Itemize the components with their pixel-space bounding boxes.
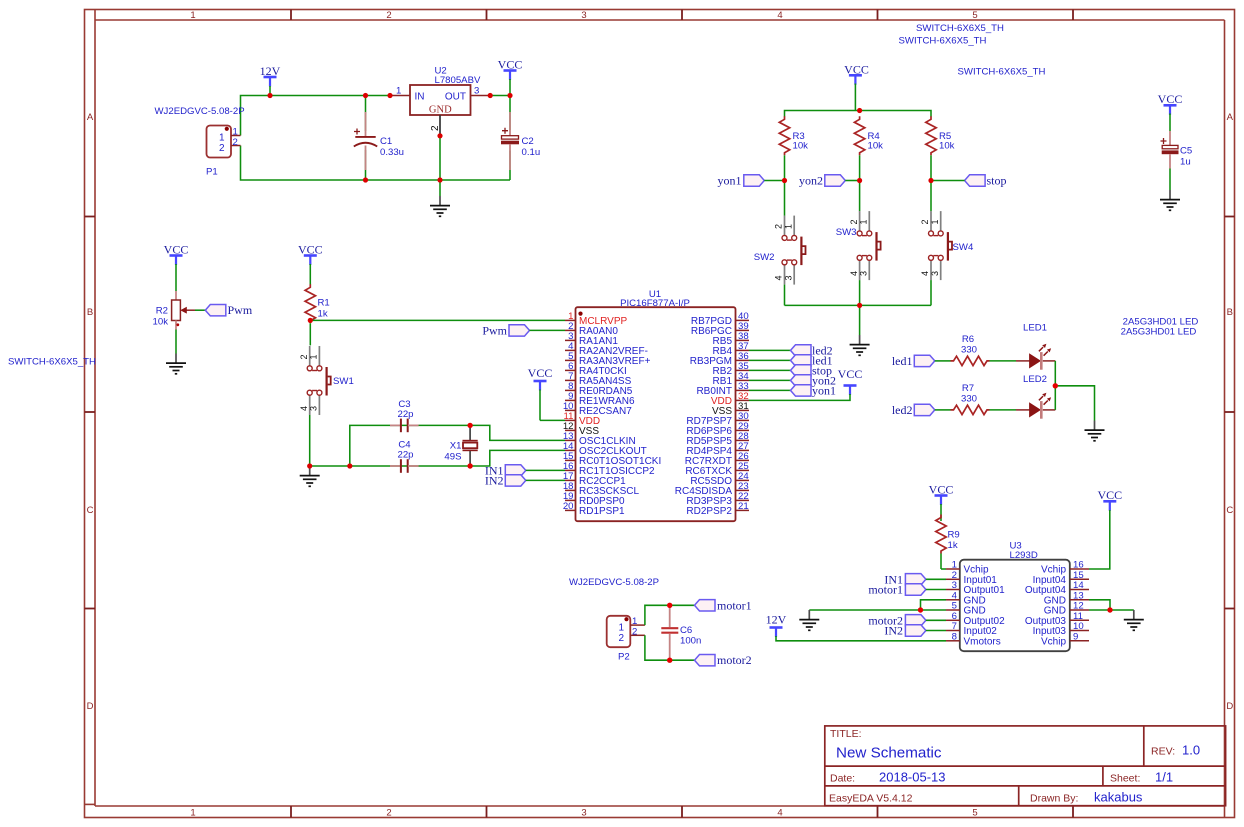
junction P2 bottom	[667, 658, 672, 663]
svg-text:Sheet:: Sheet:	[1110, 773, 1140, 785]
svg-text:2: 2	[774, 224, 784, 229]
junction X1 top	[467, 423, 472, 428]
netport stop (RB2)	[749, 363, 832, 377]
svg-text:1: 1	[618, 623, 624, 634]
junction R1 bottom	[308, 318, 313, 323]
junction VCC corner	[507, 93, 512, 98]
svg-text:2: 2	[299, 354, 309, 359]
svg-text:3: 3	[581, 10, 586, 21]
svg-text:1: 1	[859, 219, 869, 224]
ground (C5)	[1160, 190, 1180, 210]
junction 12V rail	[267, 93, 272, 98]
junction X1 bottom	[467, 463, 472, 468]
border row letters	[87, 112, 1234, 712]
svg-text:2: 2	[920, 219, 930, 224]
svg-text:10k: 10k	[153, 317, 169, 328]
svg-text:yon1: yon1	[718, 174, 742, 188]
svg-text:VCC: VCC	[1158, 92, 1183, 106]
svg-text:L293D: L293D	[1010, 550, 1038, 561]
junction stop node	[928, 178, 933, 183]
netport yon2 (RB1)	[749, 373, 836, 387]
title block	[825, 726, 1226, 806]
sheet border inner frame	[95, 19, 1225, 21]
svg-text:22p: 22p	[397, 409, 413, 420]
power flag VCC (U1 VDD pin32)	[749, 367, 862, 400]
svg-text:4: 4	[920, 271, 930, 276]
ground (switches)	[850, 335, 870, 355]
svg-text:kakabus: kakabus	[1094, 790, 1143, 805]
svg-text:2: 2	[386, 808, 391, 819]
wire U3 pin12 gnd to ground	[1089, 609, 1134, 611]
power flag VCC (R1)	[298, 242, 323, 284]
wire osc top to pin13	[470, 425, 565, 440]
svg-text:LED1: LED1	[1023, 323, 1047, 334]
svg-text:1: 1	[783, 224, 793, 229]
svg-text:1.0: 1.0	[1182, 743, 1200, 758]
wire pullup top rail	[785, 111, 932, 117]
netport stop	[931, 174, 1007, 188]
power flag VCC (switch pullups)	[844, 62, 869, 110]
power flag VCC (U1 VDD pin11)	[528, 366, 553, 420]
svg-text:D: D	[1226, 701, 1233, 712]
svg-text:motor2: motor2	[717, 653, 752, 667]
netport IN2 (U3)	[884, 624, 946, 638]
svg-text:0.1u: 0.1u	[522, 147, 541, 158]
svg-text:IN2: IN2	[485, 473, 504, 487]
wire rail to gnd	[859, 305, 861, 335]
svg-text:2: 2	[618, 633, 624, 644]
wire gnd stem	[439, 180, 441, 196]
svg-text:VCC: VCC	[528, 366, 553, 380]
svg-text:0.33u: 0.33u	[380, 147, 404, 158]
svg-text:SWITCH-6X6X5_TH: SWITCH-6X6X5_TH	[899, 36, 987, 47]
svg-text:2: 2	[632, 626, 637, 637]
column tick marks top	[291, 10, 1073, 21]
border column numbers	[190, 10, 977, 819]
svg-text:4: 4	[777, 10, 782, 21]
svg-text:330: 330	[961, 345, 977, 356]
svg-text:1: 1	[233, 127, 238, 138]
svg-text:R9: R9	[948, 530, 960, 541]
U2 pin 3	[471, 95, 491, 97]
wire C1 branch	[365, 96, 367, 132]
netport Pwm (to RA0)	[482, 323, 565, 337]
wire R5 to SW4	[930, 181, 932, 212]
svg-text:P2: P2	[618, 652, 630, 663]
U1 right pin names	[675, 316, 733, 517]
svg-text:20: 20	[563, 501, 574, 512]
wire LED node to gnd	[1055, 386, 1094, 421]
svg-text:1k: 1k	[318, 309, 328, 320]
capacitor C2	[501, 112, 540, 170]
svg-text:WJ2EDGVC-5.08-2P: WJ2EDGVC-5.08-2P	[155, 106, 245, 117]
wire U3 pin13 gnd	[1089, 600, 1110, 610]
junction yon1 node	[782, 178, 787, 183]
svg-text:1: 1	[190, 10, 195, 21]
svg-text:C2: C2	[522, 136, 534, 147]
wire switch bottom rail	[785, 304, 932, 306]
U3 right pin numbers	[1073, 560, 1084, 643]
svg-text:R7: R7	[962, 383, 974, 394]
LED LED2	[1016, 374, 1055, 419]
svg-text:led2: led2	[892, 403, 913, 417]
svg-text:9: 9	[1073, 631, 1078, 642]
wire osc bottom rail	[310, 465, 470, 467]
svg-text:TITLE:: TITLE:	[830, 728, 862, 740]
svg-text:A: A	[87, 112, 94, 123]
svg-text:SW1: SW1	[333, 376, 354, 387]
svg-text:OUT: OUT	[445, 92, 466, 103]
svg-text:VCC: VCC	[838, 367, 863, 381]
wire R9 to U3 pin1	[941, 568, 946, 570]
U1 left pin stubs	[565, 320, 576, 510]
svg-text:1/1: 1/1	[1155, 770, 1173, 785]
junction switch bottom rail	[857, 303, 862, 308]
column tick marks bottom	[291, 806, 1073, 818]
junction U2 pin2 node	[437, 133, 442, 138]
junction osc corner	[347, 463, 352, 468]
wire R4 to SW3	[859, 181, 861, 212]
netport yon1 (RB0)	[749, 383, 836, 397]
svg-text:5: 5	[972, 808, 977, 819]
svg-text:10k: 10k	[939, 141, 955, 152]
svg-text:2A5G3HD01 LED: 2A5G3HD01 LED	[1121, 327, 1197, 338]
svg-text:SWITCH-6X6X5_TH: SWITCH-6X6X5_TH	[8, 357, 96, 368]
svg-text:yon2: yon2	[799, 174, 823, 188]
svg-text:RD2PSP2: RD2PSP2	[686, 506, 732, 517]
svg-text:B: B	[87, 307, 93, 318]
LED LED1	[1016, 323, 1055, 370]
svg-text:GND: GND	[429, 105, 452, 116]
wire LED cathodes join	[1054, 361, 1056, 410]
svg-text:REV:: REV:	[1151, 746, 1175, 758]
svg-text:SW3: SW3	[836, 227, 857, 238]
svg-text:21: 21	[738, 501, 749, 512]
netport Pwm (R2 wiper)	[195, 303, 253, 317]
svg-text:RD1PSP1: RD1PSP1	[579, 506, 625, 517]
wire R2 to gnd	[175, 330, 177, 354]
resistor R3	[779, 116, 808, 180]
junction C1 bottom	[363, 177, 368, 182]
netport IN2 (to RC2)	[485, 473, 565, 487]
wire C5 to gnd	[1169, 169, 1171, 191]
ground (power supply)	[430, 196, 450, 216]
switch SW1	[299, 346, 354, 415]
svg-text:4: 4	[849, 271, 859, 276]
U3 left pin stubs	[946, 569, 960, 641]
svg-text:12V: 12V	[260, 64, 281, 78]
resistor R6	[951, 334, 1017, 366]
power flag VCC (U3 pin16)	[1089, 488, 1122, 569]
netport yon2	[799, 174, 860, 188]
U3 left pin names	[964, 565, 1006, 648]
svg-text:100n: 100n	[680, 636, 701, 647]
svg-text:C: C	[87, 505, 94, 516]
svg-text:WJ2EDGVC-5.08-2P: WJ2EDGVC-5.08-2P	[569, 577, 659, 588]
svg-text:VCC: VCC	[1097, 488, 1122, 502]
resistor R7	[951, 383, 1017, 415]
svg-text:D: D	[87, 701, 94, 712]
switch SW2	[754, 216, 806, 285]
transistor-array U3 body	[960, 541, 1070, 652]
svg-text:P1: P1	[206, 167, 218, 178]
svg-text:B: B	[1227, 307, 1233, 318]
svg-text:1: 1	[219, 133, 225, 144]
svg-text:X1: X1	[450, 441, 462, 452]
netport led1 (LED drive)	[892, 354, 951, 368]
svg-text:4: 4	[774, 276, 784, 281]
svg-text:3: 3	[474, 86, 479, 97]
svg-text:L7805ABV: L7805ABV	[435, 75, 481, 86]
wire SW2 to bottom rail	[784, 285, 786, 306]
svg-text:yon1: yon1	[812, 383, 836, 397]
svg-text:New Schematic: New Schematic	[836, 745, 942, 762]
U1 right pin stubs	[736, 320, 750, 510]
netport led2 (RB4)	[749, 343, 833, 357]
U3 left pin numbers	[952, 560, 958, 643]
U1 right pin numbers	[738, 311, 749, 512]
wire MCLR net	[310, 319, 565, 321]
svg-text:10k: 10k	[793, 141, 809, 152]
svg-text:C6: C6	[680, 625, 692, 636]
netport motor2 (P2 side)	[695, 653, 752, 667]
svg-text:stop: stop	[987, 174, 1007, 188]
wire osc bottom to pin14	[470, 450, 565, 466]
U3 right pin stubs	[1070, 569, 1089, 641]
svg-text:SWITCH-6X6X5_TH: SWITCH-6X6X5_TH	[958, 67, 1046, 78]
netport led1 (RB3)	[749, 353, 833, 367]
netport motor1 (P2 side)	[695, 598, 752, 612]
svg-text:4: 4	[299, 406, 309, 411]
ground (R2)	[166, 354, 186, 374]
resistor R5	[926, 116, 955, 180]
svg-text:1u: 1u	[1180, 157, 1191, 168]
wire U3 pin5 gnd to ground	[809, 609, 946, 611]
svg-text:VCC: VCC	[164, 242, 189, 256]
svg-text:Pwm: Pwm	[482, 323, 507, 337]
wire P2 pin2 to motor2	[645, 635, 695, 660]
netport motor1 (U3)	[868, 583, 946, 597]
wire SW3 to bottom rail	[859, 280, 861, 305]
svg-text:22p: 22p	[397, 450, 413, 461]
U1 left pin names	[579, 316, 661, 517]
svg-text:3: 3	[581, 808, 586, 819]
junction C1 top	[363, 93, 368, 98]
wire VCC to pin11	[540, 419, 565, 421]
switch SW3	[836, 211, 881, 280]
wire P2 pin1 to motor1	[645, 605, 695, 625]
connector P2	[607, 616, 645, 663]
svg-text:3: 3	[930, 271, 940, 276]
svg-text:2: 2	[430, 125, 441, 131]
switch SW4	[920, 211, 974, 280]
svg-text:3: 3	[783, 276, 793, 281]
svg-text:49S: 49S	[444, 452, 461, 463]
resistor R9	[936, 515, 960, 570]
svg-text:8: 8	[952, 631, 957, 642]
wire U2 gnd pin to rail	[439, 137, 441, 180]
svg-text:Date:: Date:	[830, 773, 855, 785]
connector P1	[155, 106, 245, 178]
svg-text:1: 1	[396, 86, 401, 97]
svg-text:2018-05-13: 2018-05-13	[879, 770, 946, 785]
svg-text:1: 1	[190, 808, 195, 819]
op-amp U1 body	[576, 289, 736, 521]
svg-text:PIC16F877A-I/P: PIC16F877A-I/P	[620, 298, 690, 309]
resistor R4	[854, 116, 883, 180]
capacitor C6	[661, 605, 701, 660]
row tick marks left and right	[85, 217, 1235, 609]
svg-text:R1: R1	[318, 298, 330, 309]
svg-text:3: 3	[859, 271, 869, 276]
svg-text:led1: led1	[892, 354, 913, 368]
svg-text:2: 2	[233, 137, 238, 148]
svg-text:5: 5	[972, 10, 977, 21]
netport led2 (LED drive)	[892, 403, 951, 417]
svg-text:12V: 12V	[766, 613, 787, 627]
junction U2 pin1	[387, 93, 392, 98]
power flag 12V	[260, 64, 281, 96]
svg-text:IN2: IN2	[884, 624, 903, 638]
power flag VCC (R9)	[929, 483, 954, 522]
junction U3 gnd left	[918, 607, 923, 612]
junction LED node	[1053, 383, 1058, 388]
ground (U3 right)	[1124, 610, 1144, 630]
wire SW4 to bottom rail	[930, 280, 932, 305]
ground (LEDs)	[1085, 421, 1105, 441]
svg-text:motor1: motor1	[717, 598, 752, 612]
wire bottom ground rail	[241, 146, 511, 181]
U3 right pin names	[1025, 565, 1067, 648]
junction P2 top	[667, 603, 672, 608]
ground (U3 left)	[799, 610, 819, 630]
svg-text:Pwm: Pwm	[228, 303, 253, 317]
svg-text:R2: R2	[156, 306, 168, 317]
svg-text:SWITCH-6X6X5_TH: SWITCH-6X6X5_TH	[916, 23, 1004, 34]
junction U3 gnd right	[1107, 607, 1112, 612]
wire osc left branch	[350, 425, 470, 466]
power flag VCC (R2)	[164, 242, 189, 291]
junction gnd rail	[437, 177, 442, 182]
resistor R1	[305, 284, 330, 345]
svg-text:VCC: VCC	[298, 242, 323, 256]
svg-text:1: 1	[309, 354, 319, 359]
svg-text:motor1: motor1	[868, 583, 903, 597]
capacitor C5	[1161, 131, 1193, 169]
junction switch rail top	[857, 108, 862, 113]
power flag 12V (Vmotors)	[766, 613, 946, 641]
netport IN1 (U3)	[884, 572, 946, 586]
power flag VCC (C5)	[1158, 92, 1183, 131]
svg-text:C5: C5	[1180, 146, 1192, 157]
svg-text:R6: R6	[962, 334, 974, 345]
svg-text:2: 2	[219, 143, 225, 154]
junction SW1 gnd	[307, 463, 312, 468]
svg-text:C1: C1	[380, 136, 392, 147]
wire C2 branch	[509, 96, 511, 131]
wire R3 to SW2	[784, 181, 786, 216]
crystal X1	[444, 425, 477, 466]
capacitor C4	[390, 440, 419, 473]
svg-text:2: 2	[386, 10, 391, 21]
svg-text:C: C	[1226, 505, 1233, 516]
svg-text:10k: 10k	[868, 141, 884, 152]
svg-text:VCC: VCC	[929, 483, 954, 497]
potentiometer R2	[153, 291, 195, 330]
svg-text:3: 3	[309, 406, 319, 411]
junction U2 pin3	[488, 93, 493, 98]
power flag VCC (U2 output)	[498, 58, 523, 96]
svg-text:IN: IN	[415, 92, 425, 103]
svg-text:SW4: SW4	[953, 242, 974, 253]
svg-text:EasyEDA V5.4.12: EasyEDA V5.4.12	[829, 793, 913, 805]
netport motor2 (U3)	[868, 613, 946, 627]
ground (SW1)	[300, 466, 320, 486]
netport IN1 (to RC1)	[485, 463, 565, 477]
svg-text:1k: 1k	[948, 540, 958, 551]
U1 left pin numbers	[563, 311, 574, 512]
U2 pin 2	[439, 115, 441, 136]
svg-text:330: 330	[961, 394, 977, 405]
wire U2 out to VCC node	[490, 95, 510, 97]
svg-text:LED2: LED2	[1023, 374, 1047, 385]
wire 12V top rail	[241, 96, 391, 136]
wire SW1 bottom to rail	[309, 415, 311, 466]
svg-text:1: 1	[930, 219, 940, 224]
svg-text:4: 4	[777, 808, 782, 819]
regulator U2	[390, 66, 490, 136]
svg-text:Drawn By:: Drawn By:	[1030, 793, 1078, 805]
svg-text:Vmotors: Vmotors	[964, 637, 1001, 648]
netport yon1	[718, 174, 785, 188]
capacitor C3	[390, 399, 419, 432]
svg-text:VCC: VCC	[844, 62, 869, 76]
svg-text:SW2: SW2	[754, 252, 775, 263]
U2 pin 1	[390, 95, 410, 97]
svg-text:A: A	[1227, 112, 1234, 123]
wire U3 pin4 gnd	[921, 600, 947, 610]
capacitor C1	[354, 112, 404, 170]
junction yon2 node	[857, 178, 862, 183]
svg-text:Vchip: Vchip	[1041, 637, 1066, 648]
svg-text:VCC: VCC	[498, 58, 523, 72]
svg-text:2: 2	[849, 219, 859, 224]
